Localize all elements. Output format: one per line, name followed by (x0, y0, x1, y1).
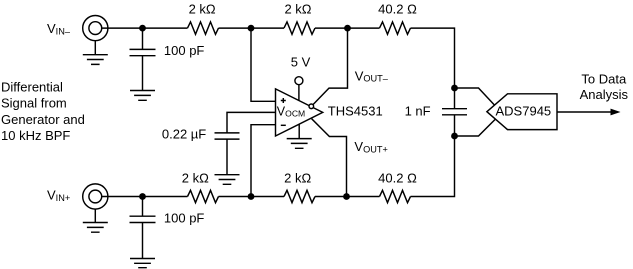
wire R3 to corner, down to node D1 (411, 28, 455, 88)
node C2b junction (VOUT+ node) (343, 193, 350, 200)
wire node D1 to ADC top input (455, 88, 495, 105)
pin marker + (noninverting input) (281, 98, 286, 103)
wire VOUT+ from apex to node C2b (312, 119, 347, 197)
resistor R6 40.2 Ohm (bottom) (380, 190, 411, 202)
svg-text:VIN–: VIN– (47, 21, 71, 37)
wire R4 to node B2 (219, 196, 252, 198)
wire - input feedback vertical (node B2 to amp) (251, 125, 276, 197)
svg-text:VOUT–: VOUT– (355, 68, 389, 83)
node D1 junction (451, 85, 458, 92)
wire + input feedback vertical (node B1 to amp) (251, 28, 276, 101)
capacitor C3 1 nF (442, 88, 467, 136)
wire VIN- input to node A1 (102, 27, 143, 29)
svg-text:Differential: Differential (1, 79, 63, 94)
wire ADC output arrow to data analysis (557, 109, 621, 116)
wire node D2 to ADC bottom input (455, 119, 496, 136)
resistor R3 40.2 Ohm (top) (380, 22, 411, 34)
connector J1 VIN- BNC (83, 16, 108, 41)
connector J2 VIN+ BNC (83, 184, 108, 209)
wire R2 to node C1t (315, 27, 348, 29)
svg-text:1 nF: 1 nF (405, 103, 431, 118)
svg-text:Generator and: Generator and (1, 112, 85, 127)
ground (below J1) (83, 41, 108, 65)
svg-text:VIN+: VIN+ (47, 188, 70, 204)
pin marker - (inverting input) (281, 124, 286, 126)
ground (op-amp) (287, 124, 312, 148)
label To Data Analysis (580, 72, 629, 102)
ground (below J2) (83, 209, 108, 232)
ground (below C4) (130, 259, 155, 268)
wire node C2b to R6 (347, 196, 380, 198)
wire node C1t to R3 (348, 27, 380, 29)
wire VOCM from amp to C2 corner (227, 112, 276, 132)
svg-text:40.2 Ω: 40.2 Ω (378, 170, 417, 185)
wire node A1 to R1 (143, 27, 188, 29)
wire R1 to node B1 (219, 27, 252, 29)
svg-text:40.2 Ω: 40.2 Ω (378, 2, 417, 17)
node B1 junction (amp + input node) (248, 25, 255, 32)
svg-text:2 kΩ: 2 kΩ (189, 2, 216, 17)
resistor R5 2 kOhm (feedback bottom) (284, 190, 315, 202)
svg-text:100 pF: 100 pF (164, 211, 205, 226)
svg-text:5 V: 5 V (291, 54, 311, 69)
5V supply wire and terminal (295, 77, 303, 101)
op-amp U1 THS4531 (276, 89, 323, 136)
svg-text:THS4531: THS4531 (328, 103, 383, 118)
svg-text:VOCM: VOCM (277, 105, 305, 119)
wire node B2 to R5 (251, 196, 284, 198)
ground (below C1) (130, 91, 155, 101)
capacitor C4 100 pF (bottom) (130, 197, 156, 259)
svg-text:100 pF: 100 pF (164, 43, 205, 58)
svg-text:2 kΩ: 2 kΩ (182, 170, 209, 185)
svg-text:ADS7945: ADS7945 (496, 103, 552, 118)
ADC U2 ADS7945 (487, 94, 557, 130)
wire R6 to corner, up to node D2 (411, 136, 455, 197)
resistor R4 2 kOhm (bottom) (188, 190, 219, 202)
wire VOUT- from bubble to node C1t (313, 28, 348, 105)
capacitor C2 0.22 uF (215, 133, 240, 175)
svg-text:2 kΩ: 2 kΩ (284, 170, 311, 185)
capacitor C1 100 pF (top) (130, 28, 156, 90)
node B2 junction (amp - input node) (248, 193, 255, 200)
svg-text:Analysis: Analysis (580, 87, 629, 102)
inverting output bubble (309, 104, 314, 109)
svg-text:Signal from: Signal from (1, 96, 67, 111)
svg-text:2 kΩ: 2 kΩ (284, 2, 311, 17)
wire node A2 to R4 (143, 196, 188, 198)
node A1 junction (139, 25, 146, 32)
node A2 junction (139, 193, 146, 200)
svg-text:VOUT+: VOUT+ (354, 139, 387, 154)
wire R5 to node C2b (315, 196, 347, 198)
svg-text:To Data: To Data (581, 72, 627, 87)
svg-text:10 kHz BPF: 10 kHz BPF (1, 128, 70, 143)
resistor R1 2 kOhm (188, 22, 219, 34)
wire node B1 to R2 (251, 27, 284, 29)
node D2 junction (451, 133, 458, 140)
node C1t junction (VOUT- node) (344, 25, 351, 32)
wire VIN+ input to node A2 (102, 196, 143, 198)
resistor R2 2 kOhm (feedback top) (284, 22, 315, 34)
svg-text:0.22 µF: 0.22 µF (162, 127, 206, 142)
ground (below C2) (215, 175, 240, 185)
